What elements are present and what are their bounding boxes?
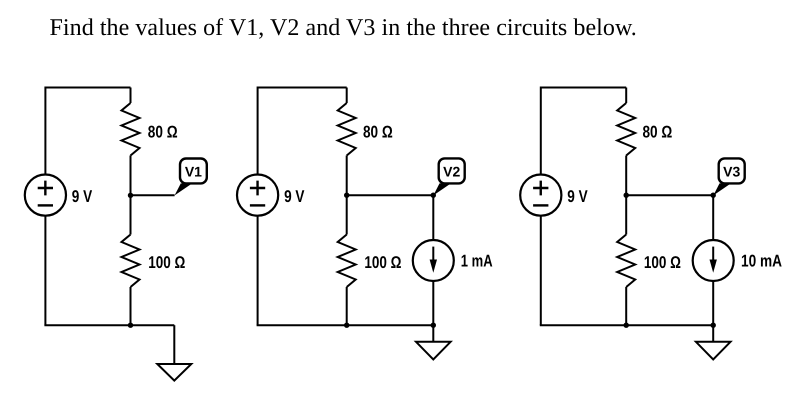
node dot mid left C2 (344, 193, 349, 198)
wire between resistors C3 (625, 156, 627, 235)
svg-text:80 Ω: 80 Ω (643, 123, 673, 142)
svg-text:80 Ω: 80 Ω (148, 123, 178, 142)
voltage source plus sign C3 (533, 181, 548, 196)
wire mid rail C2 (347, 194, 434, 196)
svg-text:9 V: 9 V (72, 187, 93, 206)
callout tail V1 (175, 183, 193, 195)
wire mid node to V1 callout C1 (131, 194, 175, 196)
wire top rail C1 (45, 87, 130, 89)
resistor R1 80 ohm zigzag C1 (122, 103, 140, 156)
wire resistor top stub C3 (625, 88, 627, 104)
wire current source top stub C3 (712, 195, 714, 240)
resistor R4 100 ohm zigzag C2 (338, 235, 356, 288)
current source arrow shaft C2 (432, 247, 434, 265)
ground stem C3 (712, 325, 714, 342)
svg-text:80 Ω: 80 Ω (363, 123, 393, 142)
resistor R3 80 ohm zigzag C2 (338, 103, 356, 156)
current source arrow head C3 (710, 260, 717, 273)
voltage source plus sign C1 (38, 181, 53, 196)
callout box V2 (439, 158, 465, 183)
callout tail V2 (433, 183, 451, 195)
svg-text:Find the values of V1, V2 and: Find the values of V1, V2 and V3 in the … (50, 15, 637, 41)
voltage source V 9V circle C1 (25, 175, 66, 216)
callout box V3 (719, 158, 745, 183)
current source I2 circle C3 (693, 240, 734, 281)
svg-text:V1: V1 (185, 164, 202, 180)
resistor R2 100 ohm zigzag C1 (122, 235, 140, 288)
voltage source plus sign C2 (250, 181, 265, 196)
wire left lower C2 (257, 216, 259, 326)
wire top rail C3 (541, 87, 626, 89)
node dot bottom right C2 (431, 323, 436, 328)
ground triangle C2 (416, 342, 451, 360)
wire bottom rail C3 (540, 324, 713, 326)
voltage source minus sign C3 (533, 204, 548, 206)
svg-text:100 Ω: 100 Ω (364, 253, 401, 272)
wire left upper C2 (257, 87, 259, 175)
voltage source minus sign C2 (250, 204, 265, 206)
node dot mid C1 (128, 193, 133, 198)
callout box V1 (180, 159, 207, 184)
callout tail V3 (713, 183, 731, 195)
resistor R6 100 ohm zigzag C3 (617, 235, 635, 288)
voltage source minus sign C1 (38, 204, 53, 206)
voltage source V 9V circle C2 (237, 175, 278, 216)
wire resistor top stub C2 (346, 88, 348, 104)
svg-text:V2: V2 (443, 164, 460, 180)
wire current source bottom stub C2 (432, 281, 434, 325)
svg-text:V3: V3 (723, 164, 740, 180)
voltage source V 9V circle C3 (520, 175, 561, 216)
ground triangle C3 (696, 342, 731, 360)
wire bottom rail C2 (257, 324, 434, 326)
wire current source top stub C2 (432, 195, 434, 240)
svg-text:9 V: 9 V (284, 187, 305, 206)
node dot mid left C3 (624, 193, 629, 198)
node dot bottom left C2 (344, 323, 349, 328)
wire between resistors C2 (346, 156, 348, 235)
wire left lower C1 (44, 216, 46, 326)
wire resistor top stub C1 (130, 88, 132, 104)
wire left lower C3 (540, 216, 542, 326)
current source arrow head C2 (430, 260, 437, 273)
wire resistor bottom stub C2 (346, 287, 348, 325)
wire mid rail C3 (626, 194, 713, 196)
node dot bottom right C3 (711, 323, 716, 328)
wire top rail C2 (258, 87, 347, 89)
current source I1 circle C2 (413, 240, 454, 281)
node dot bottom left C3 (624, 323, 629, 328)
ground triangle C1 (157, 364, 191, 381)
svg-text:100 Ω: 100 Ω (148, 253, 185, 272)
wire resistor bottom stub C1 (130, 287, 132, 325)
svg-text:1 mA: 1 mA (461, 252, 493, 271)
svg-text:10 mA: 10 mA (741, 252, 782, 271)
node dot mid right C2 (431, 193, 436, 198)
wire between resistors C1 (130, 156, 132, 235)
wire current source bottom stub C3 (712, 281, 714, 325)
current source arrow shaft C3 (712, 247, 714, 265)
node dot mid right C3 (711, 193, 716, 198)
svg-text:100 Ω: 100 Ω (644, 253, 681, 272)
wire resistor bottom stub C3 (625, 287, 627, 325)
ground stem C1 (173, 325, 175, 364)
svg-text:9 V: 9 V (567, 187, 588, 206)
wire left upper C1 (44, 87, 46, 175)
wire left upper C3 (540, 87, 542, 175)
resistor R5 80 ohm zigzag C3 (617, 103, 635, 156)
ground stem C2 (432, 325, 434, 342)
wire bottom rail C1 (44, 324, 174, 326)
node dot bottom C1 (128, 323, 133, 328)
